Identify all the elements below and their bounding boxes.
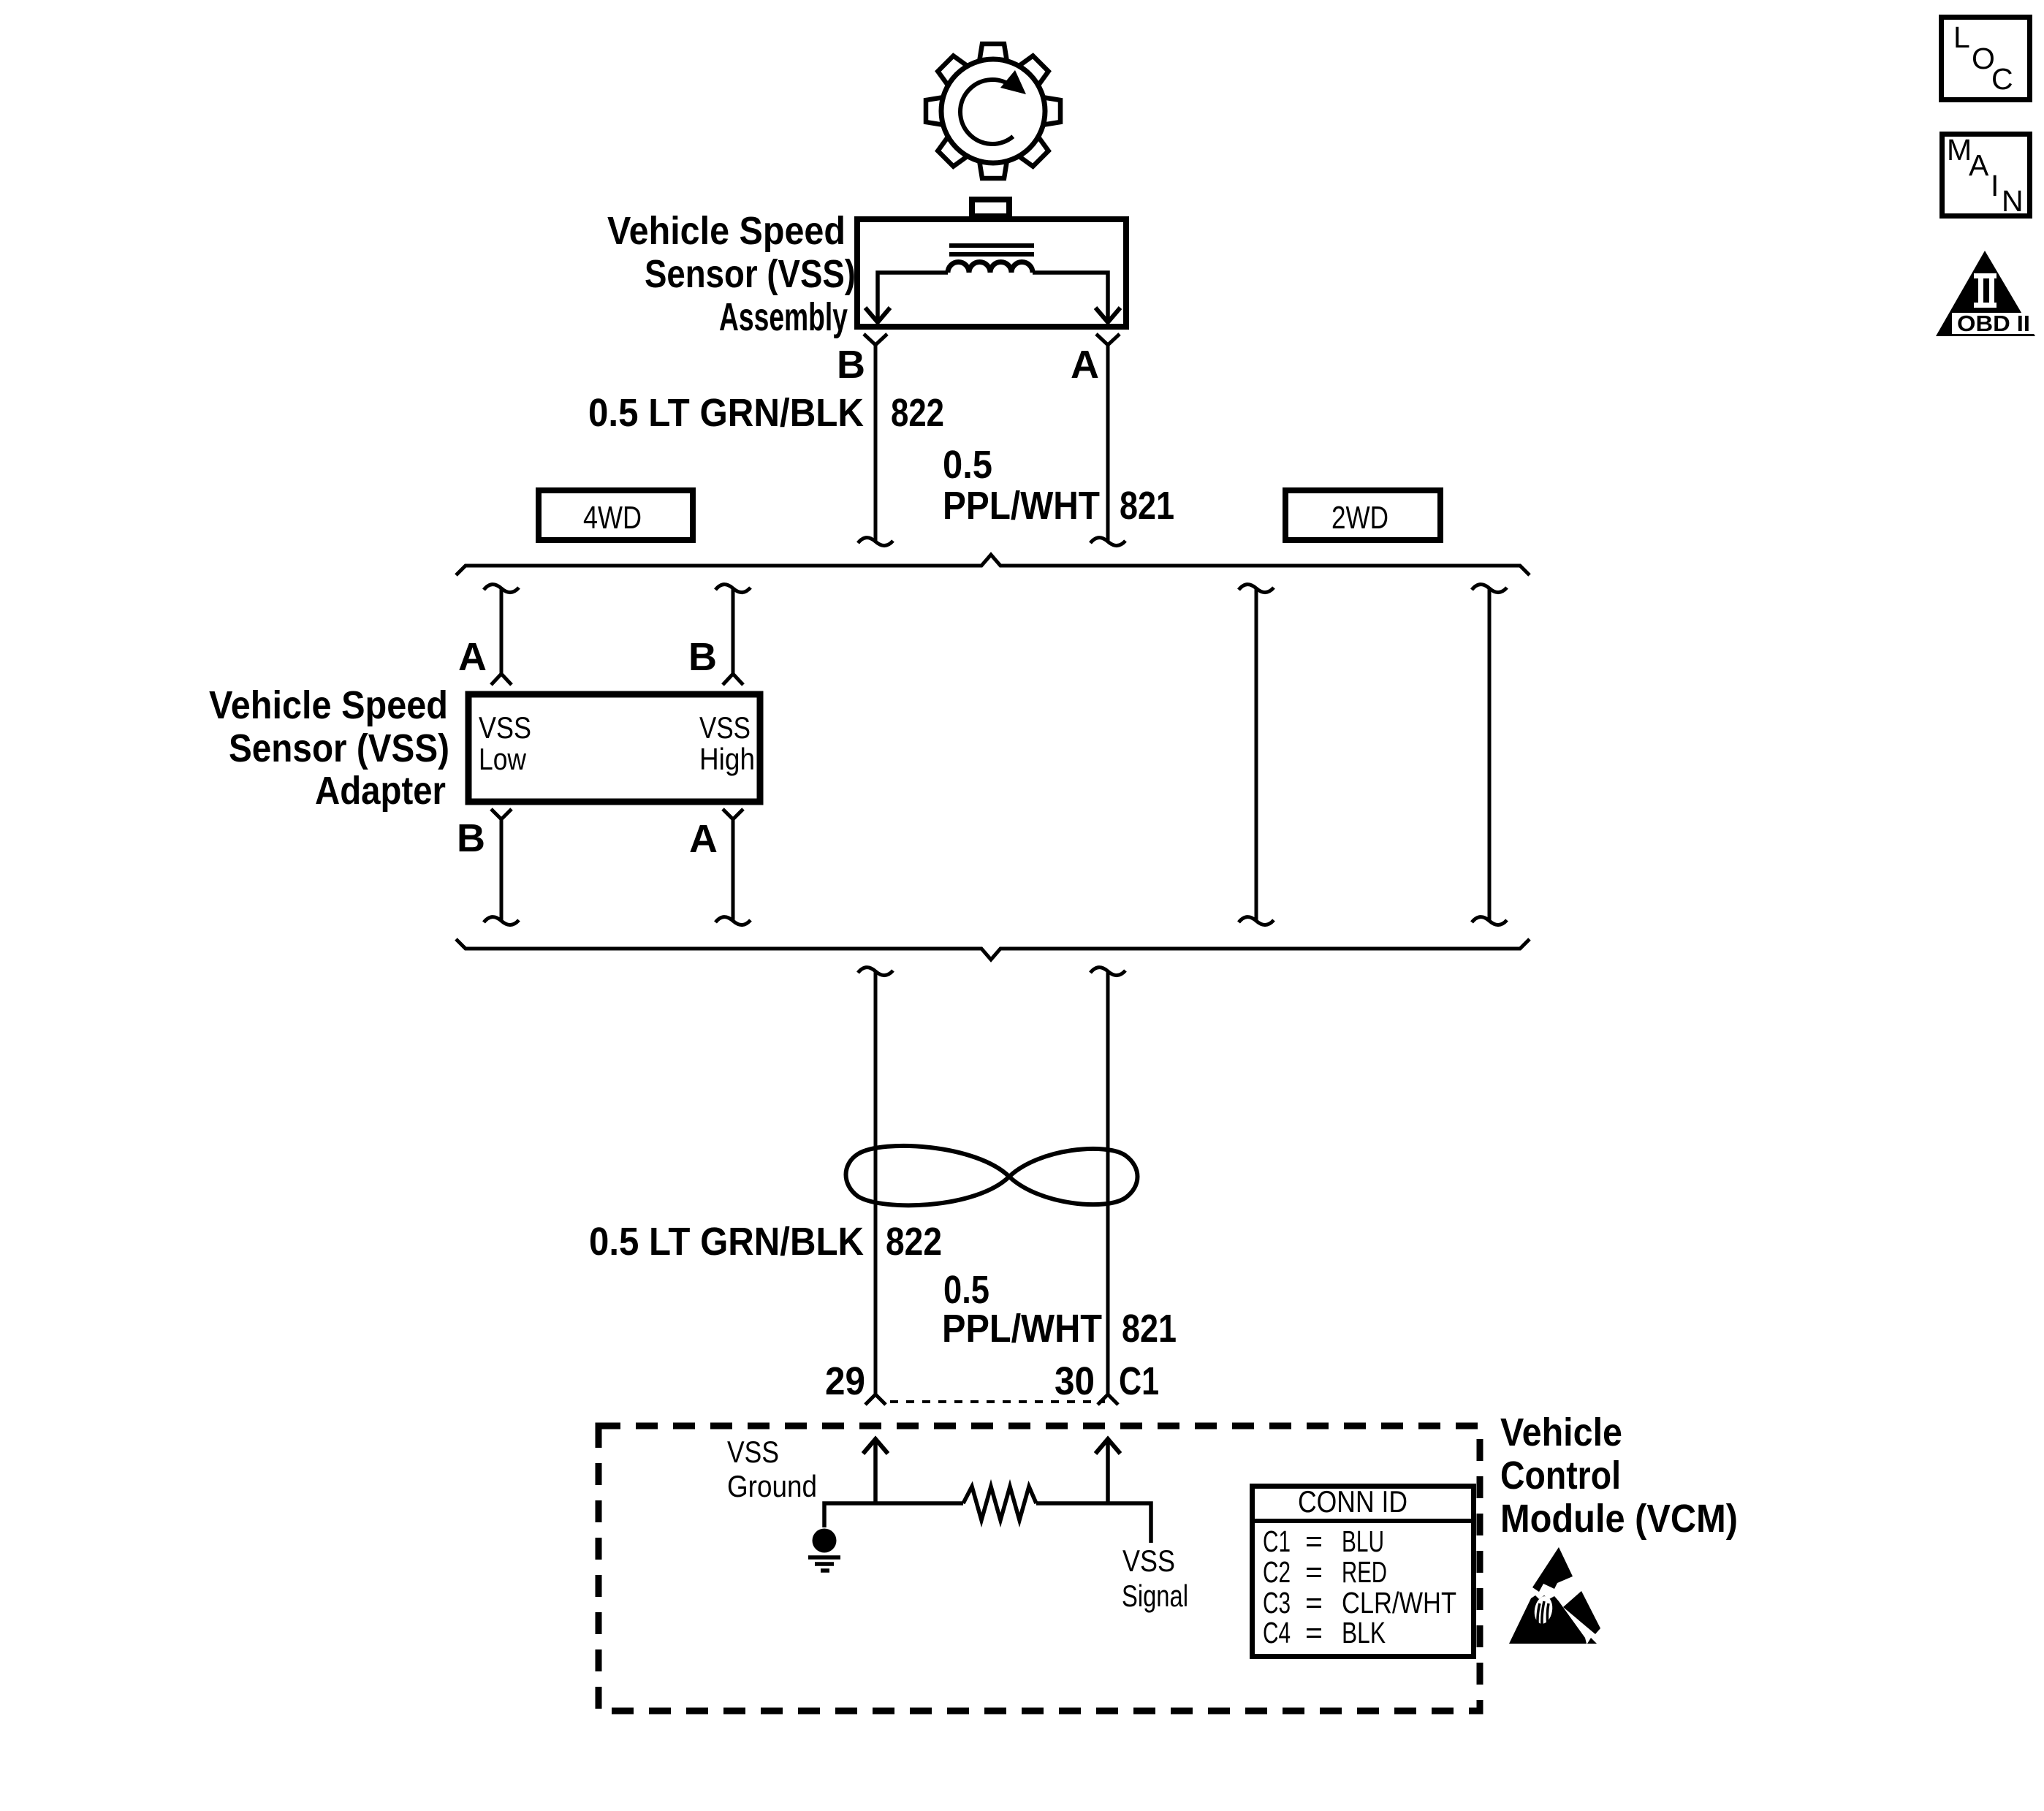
svg-text:I: I [1991, 169, 1999, 202]
svg-text:L: L [1953, 20, 1970, 54]
svg-text:N: N [2002, 184, 2024, 218]
svg-text:VSS: VSS [699, 710, 751, 745]
svg-text:Vehicle Speed: Vehicle Speed [607, 209, 846, 253]
wire label 0.5 PPL/WHT [943, 443, 1100, 528]
VSS sensor mounting tab [972, 200, 1009, 216]
svg-text:C4: C4 [1263, 1616, 1291, 1649]
OBD II label band [1952, 313, 2036, 334]
arrow to pin A (inside box) [1095, 308, 1120, 322]
4WD stub wire B (bottom left) [484, 809, 519, 925]
svg-text:822: 822 [891, 391, 944, 435]
4WD stub wire B (top right) [715, 585, 751, 685]
svg-text:Assembly: Assembly [719, 295, 848, 339]
svg-text:High: High [699, 742, 755, 776]
label VSS Signal [1122, 1544, 1188, 1613]
ground junction dot [813, 1529, 837, 1553]
bottom harness brace [456, 939, 1530, 960]
row C1 = BLU [1263, 1525, 1384, 1558]
ground symbol [808, 1557, 840, 1571]
svg-text:=: = [1305, 1525, 1323, 1558]
svg-text:821: 821 [1120, 484, 1174, 528]
MAIN letters [1947, 133, 2024, 218]
svg-text:Sensor (VSS): Sensor (VSS) [645, 252, 856, 296]
svg-text:PPL/WHT: PPL/WHT [942, 1307, 1102, 1351]
svg-text:Sensor (VSS): Sensor (VSS) [229, 726, 449, 770]
svg-text:C1: C1 [1263, 1525, 1291, 1558]
2WD pass-through wire right [1472, 585, 1507, 925]
LOC letters [1953, 20, 2013, 96]
svg-text:A: A [689, 817, 718, 861]
VSS assembly box [857, 219, 1126, 327]
svg-text:822: 822 [886, 1220, 942, 1264]
svg-text:VSS: VSS [727, 1435, 779, 1469]
4WD stub wire A (top left) [484, 585, 519, 685]
VSS ground arrow (pin 29 internal) [863, 1439, 888, 1503]
svg-text:CLR/WHT: CLR/WHT [1342, 1586, 1456, 1620]
label: Vehicle Control Module (VCM) [1500, 1411, 1738, 1541]
svg-text:0.5 LT GRN/BLK: 0.5 LT GRN/BLK [588, 391, 864, 435]
label: Vehicle Speed Sensor (VSS) Assembly [607, 209, 856, 339]
wire from coil left end [878, 273, 948, 319]
svg-text:2WD: 2WD [1331, 500, 1388, 536]
svg-text:Vehicle: Vehicle [1500, 1411, 1622, 1454]
4WD option box [539, 490, 693, 540]
VSS signal arrow (pin 30 internal) [1095, 1439, 1120, 1503]
svg-text:Module (VCM): Module (VCM) [1500, 1497, 1738, 1541]
CONN ID table box [1253, 1487, 1474, 1657]
internal resistor [963, 1487, 1036, 1520]
svg-text:BLK: BLK [1342, 1616, 1386, 1649]
svg-text:A: A [458, 635, 487, 679]
svg-text:VSS: VSS [1122, 1544, 1175, 1578]
svg-text:30: 30 [1055, 1359, 1095, 1403]
hook at end of wire 822 upper [858, 538, 893, 546]
reluctor gear wheel (VSS toothed wheel) [926, 44, 1060, 178]
internal wire right of resistor [1036, 1503, 1151, 1543]
top harness brace [456, 555, 1530, 575]
svg-text:RED: RED [1342, 1555, 1387, 1589]
inductor coil (VSS pickup coil) [948, 262, 1033, 273]
wire 821 upper segment (circuit 821, PPL/WHT) [1106, 345, 1110, 542]
svg-text:=: = [1305, 1586, 1323, 1620]
terminal B of VSS assembly [864, 334, 887, 345]
svg-text:CONN ID: CONN ID [1298, 1484, 1407, 1519]
svg-text:BLU: BLU [1342, 1525, 1384, 1558]
VCM dashed boundary box [599, 1426, 1480, 1711]
OBD II symbol triangle [1936, 251, 2035, 336]
CONN ID header divider [1250, 1519, 1476, 1523]
connector C1 dashed interface line [890, 1400, 1105, 1403]
svg-text:B: B [688, 635, 717, 679]
label VSS High [699, 710, 755, 776]
label: Vehicle Speed Sensor (VSS) Adapter [209, 683, 449, 813]
svg-text:A: A [1071, 343, 1099, 387]
row C2 = RED [1263, 1555, 1387, 1589]
svg-text:4WD: 4WD [583, 500, 642, 536]
OBD II pillar glyph [1974, 273, 1996, 308]
2WD option box [1285, 490, 1440, 540]
svg-text:0.5: 0.5 [943, 1268, 989, 1312]
VSS adapter box [468, 694, 760, 802]
internal wire left of resistor [824, 1503, 963, 1527]
ESD sensitivity symbol [1509, 1547, 1600, 1644]
wire from coil right end [1033, 273, 1108, 319]
wire label 0.5 PPL/WHT (lower) [942, 1268, 1102, 1351]
svg-text:821: 821 [1122, 1307, 1177, 1351]
svg-text:Control: Control [1500, 1454, 1621, 1497]
row C4 = BLK [1263, 1616, 1386, 1649]
svg-text:C2: C2 [1263, 1555, 1291, 1589]
twisted pair symbol [846, 1146, 1138, 1205]
svg-text:=: = [1305, 1555, 1323, 1589]
label VSS Ground [727, 1435, 817, 1503]
svg-text:29: 29 [825, 1359, 865, 1403]
svg-text:A: A [1969, 148, 1989, 182]
wire 821 lower segment to VCM pin 30 [1090, 968, 1125, 1405]
arrow to pin B (inside box) [865, 308, 890, 322]
svg-text:Low: Low [479, 742, 527, 776]
svg-text:PPL/WHT: PPL/WHT [943, 484, 1100, 528]
terminal A of VSS assembly [1096, 334, 1120, 345]
hook at end of wire 821 upper [1090, 538, 1125, 546]
svg-text:0.5: 0.5 [943, 443, 992, 487]
svg-text:Adapter: Adapter [315, 769, 446, 813]
4WD stub wire A (bottom right) [715, 809, 751, 925]
svg-text:B: B [837, 343, 865, 387]
svg-text:Ground: Ground [727, 1469, 817, 1503]
magnetic core lines [949, 246, 1034, 254]
row C3 = CLR/WHT [1263, 1586, 1456, 1620]
svg-text:C: C [1991, 62, 2013, 96]
svg-text:C1: C1 [1119, 1359, 1159, 1403]
2WD pass-through wire left [1239, 585, 1274, 925]
svg-text:Signal: Signal [1122, 1579, 1188, 1613]
LOC reference box [1942, 18, 2030, 100]
svg-text:=: = [1305, 1616, 1323, 1649]
wire 822 lower segment to VCM pin 29 [858, 968, 893, 1405]
svg-text:OBD II: OBD II [1957, 311, 2030, 336]
label VSS Low [479, 710, 531, 776]
svg-text:C3: C3 [1263, 1586, 1291, 1620]
wire 822 upper segment (circuit 822, LT GRN/BLK) [874, 345, 878, 542]
svg-text:0.5 LT GRN/BLK: 0.5 LT GRN/BLK [589, 1220, 864, 1264]
svg-text:B: B [457, 816, 485, 860]
svg-text:VSS: VSS [479, 710, 531, 745]
MAIN reference box [1942, 134, 2030, 216]
svg-text:Vehicle Speed: Vehicle Speed [209, 683, 448, 727]
